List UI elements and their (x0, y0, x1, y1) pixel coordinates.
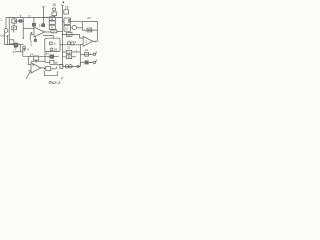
svg-text:11: 11 (67, 45, 70, 49)
svg-text:Uc: Uc (1, 33, 5, 37)
svg-text:14: 14 (39, 24, 43, 28)
svg-text:21: 21 (85, 48, 89, 52)
svg-text:17: 17 (52, 29, 56, 33)
svg-text:18: 18 (46, 52, 49, 56)
svg-text:15: 15 (52, 3, 56, 7)
svg-text:28: 28 (54, 48, 58, 52)
svg-text:14: 14 (30, 52, 34, 56)
svg-text:24: 24 (87, 16, 91, 20)
svg-text:16: 16 (65, 5, 69, 9)
svg-text:Фиг.1: Фиг.1 (48, 80, 60, 85)
svg-text:13: 13 (88, 28, 92, 32)
